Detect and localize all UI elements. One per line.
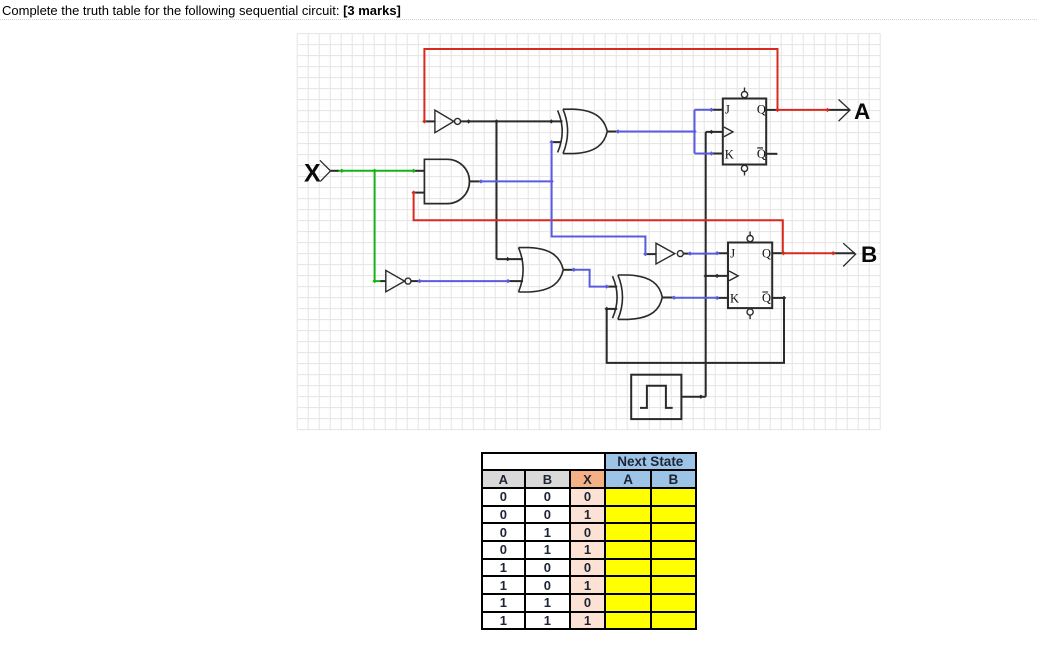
svg-text:K: K [730,292,739,306]
svg-text:Q: Q [762,291,771,305]
svg-text:X: X [304,159,321,187]
svg-text:Q: Q [757,147,766,161]
svg-text:K: K [725,148,734,162]
svg-text:Q: Q [757,103,766,117]
svg-text:Q: Q [762,247,771,261]
svg-text:J: J [730,247,735,261]
svg-text:B: B [861,242,877,267]
svg-text:A: A [854,99,870,124]
svg-text:J: J [725,103,730,117]
